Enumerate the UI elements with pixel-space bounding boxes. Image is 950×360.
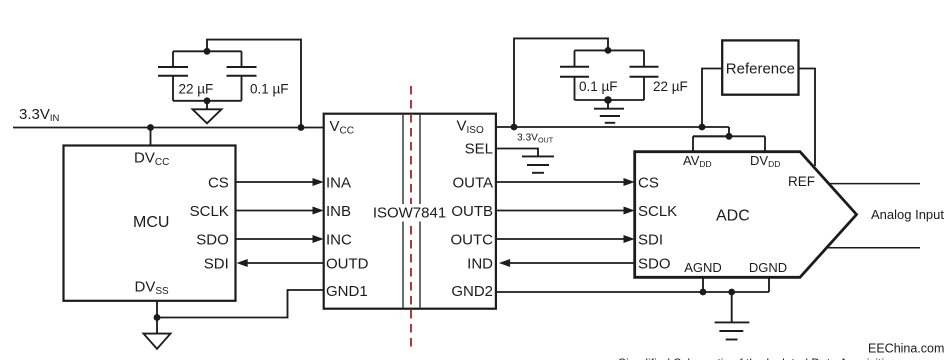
svg-text:INB: INB [326, 203, 351, 220]
svg-text:GND1: GND1 [326, 283, 368, 300]
node junction dot on rail at DVcc stub [147, 124, 154, 131]
node junction dot on rail at cap branch [298, 124, 305, 131]
isolation barrier line right [419, 115, 421, 308]
svg-text:SEL: SEL [465, 141, 493, 158]
wire right cap top bracket [575, 49, 645, 51]
node MCU ground junction dot [154, 314, 161, 321]
svg-text:REF: REF [788, 174, 815, 189]
svg-text:SCLK: SCLK [190, 203, 229, 220]
wire AVdd stub [692, 136, 694, 152]
wire DGND stub [768, 277, 770, 292]
wire OUTC to SDI with arrow [496, 238, 626, 240]
capacitor 0.1uF left [227, 51, 257, 101]
svg-text:SDO: SDO [196, 231, 229, 248]
wire MCU ground stub [156, 301, 158, 318]
node cap top junction dot [204, 48, 211, 55]
wire SCLK to INB with arrow [236, 210, 316, 212]
svg-text:0.1 µF: 0.1 µF [250, 82, 289, 97]
svg-text:GND2: GND2 [451, 283, 493, 300]
node right cap bottom junction dot [604, 96, 612, 104]
svg-text:Simplified Schematic of the Is: Simplified Schematic of the Isolated Dat… [618, 356, 897, 360]
wire AVdd DVdd tie bar [693, 135, 765, 137]
MCU block [64, 146, 236, 301]
svg-text:AGND: AGND [684, 260, 722, 275]
wire OUTD to SDI with arrow [246, 262, 324, 264]
capacitor 22uF left [158, 51, 188, 101]
capacitor 0.1uF right [560, 50, 589, 100]
node junction dot Viso rail at Reference tap [699, 124, 706, 131]
svg-text:CS: CS [638, 175, 659, 192]
wire AGND stub [702, 277, 704, 292]
svg-text:OUTA: OUTA [452, 175, 493, 192]
ground earth below right caps [594, 100, 624, 123]
svg-text:0.1 µF: 0.1 µF [579, 79, 618, 94]
ground earth below SEL [522, 156, 554, 172]
svg-text:DGND: DGND [749, 260, 787, 275]
wire DVcc stub [150, 128, 152, 147]
node cap bottom junction dot [204, 97, 211, 104]
wire analog input upper [829, 183, 920, 185]
svg-text:OUTC: OUTC [451, 231, 494, 248]
svg-text:SCLK: SCLK [638, 203, 677, 220]
svg-text:MCU: MCU [133, 214, 169, 231]
wire cap branch riser [207, 40, 301, 128]
ground triangle below MCU [144, 318, 171, 349]
wire 3.3Vin rail [13, 127, 324, 129]
svg-text:IND: IND [467, 255, 493, 272]
wire GND1 return path [157, 290, 324, 318]
svg-text:ADC: ADC [716, 208, 750, 225]
node junction dot on tie bar [726, 133, 733, 140]
svg-text:INA: INA [326, 175, 351, 192]
svg-text:OUTD: OUTD [326, 255, 369, 272]
wire GND2 rail [496, 291, 769, 293]
wire Viso rail [496, 126, 729, 128]
wire SDO to INC with arrow [236, 238, 316, 240]
isolation barrier red dashed line [410, 86, 412, 347]
wire SEL stub [496, 149, 538, 157]
svg-text:CS: CS [208, 175, 229, 192]
ground earth below ADC [715, 292, 750, 340]
wire right cap bottom bracket [575, 99, 645, 101]
wire DVdd stub [764, 136, 766, 152]
svg-text:SDI: SDI [204, 255, 229, 272]
svg-text:INC: INC [326, 231, 352, 248]
svg-text:22 µF: 22 µF [653, 79, 688, 94]
svg-text:ISOW7841: ISOW7841 [373, 204, 446, 221]
wire right cap branch riser [514, 38, 608, 127]
node AGND junction dot [700, 289, 707, 296]
wire Reference to REF pin [799, 69, 816, 167]
capacitor 22uF right [630, 50, 659, 100]
wire Reference left tap [702, 69, 722, 128]
Reference box [722, 40, 798, 94]
wire analog input lower [827, 247, 920, 249]
svg-text:SDO: SDO [638, 255, 671, 272]
wire cap top bracket [173, 50, 242, 52]
node ground stem junction dot [728, 289, 735, 296]
svg-text:SDI: SDI [638, 231, 663, 248]
ADC block [635, 152, 857, 278]
node Viso junction dot at cap branch [511, 124, 518, 131]
isolator IC ISOW7841 box [324, 114, 496, 309]
wire SDO to IND with arrow [508, 262, 635, 264]
wire cap bottom bracket [173, 100, 242, 102]
svg-text:Analog Input: Analog Input [871, 207, 944, 222]
isolation barrier line left [402, 115, 404, 308]
wire Viso step to AVdd DVdd bar [693, 127, 729, 136]
svg-text:OUTB: OUTB [451, 203, 493, 220]
svg-text:22 µF: 22 µF [179, 82, 214, 97]
ground triangle below left caps [193, 101, 222, 124]
wire OUTA to CS with arrow [496, 181, 626, 183]
node right cap top junction dot [605, 47, 612, 54]
label ISOW7841 [371, 204, 449, 222]
svg-text:EEChina.com: EEChina.com [868, 342, 944, 356]
wire OUTB to SCLK with arrow [496, 210, 626, 212]
wire CS to INA with arrow [236, 181, 316, 183]
svg-text:Reference: Reference [726, 61, 795, 78]
